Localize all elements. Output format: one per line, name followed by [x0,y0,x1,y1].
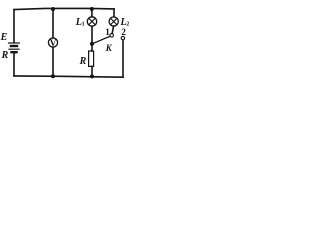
svg-text:V: V [50,38,57,48]
svg-text:1: 1 [105,27,110,37]
wire lamp L1 to switch pole [91,26,93,44]
wire right branch (contact 2 to bottom bus) [122,40,124,77]
switch contact 1 [110,34,114,38]
node dot: lamp L1 branch / top bus [90,7,94,11]
lamp L2 [109,17,118,26]
wire voltmeter branch upper [52,9,54,38]
svg-text:R: R [1,50,9,61]
svg-text:2: 2 [121,27,126,37]
svg-text:R: R [79,56,87,67]
wire bottom bus [14,76,123,77]
voltmeter V [48,38,57,47]
node dot: switch pole [90,42,94,46]
battery E (cells) [9,43,20,52]
node dot: voltmeter branch / bottom bus [51,74,55,78]
svg-text:K: K [105,43,113,53]
svg-text:E: E [0,32,8,43]
node dot: resistor branch / bottom bus [90,74,94,78]
svg-text:1: 1 [82,21,85,27]
node dot: voltmeter branch / top bus [51,7,55,11]
lamp L1 [87,17,96,26]
wire top bus corner down to lamp L2 [113,9,115,17]
wire left branch upper [13,10,15,43]
resistor R box [89,51,94,66]
wire resistor to bottom bus [91,66,93,76]
wire switch pole to resistor [91,44,93,51]
wire lamp L2 to contact 1 [112,26,114,33]
wire top bus [14,8,114,9]
wire lamp L1 branch upper [91,9,93,17]
wire left branch lower [13,53,15,76]
switch contact 2 [121,36,124,39]
svg-text:2: 2 [126,21,129,27]
wire voltmeter branch lower [52,47,54,76]
switch K blade [93,36,110,43]
